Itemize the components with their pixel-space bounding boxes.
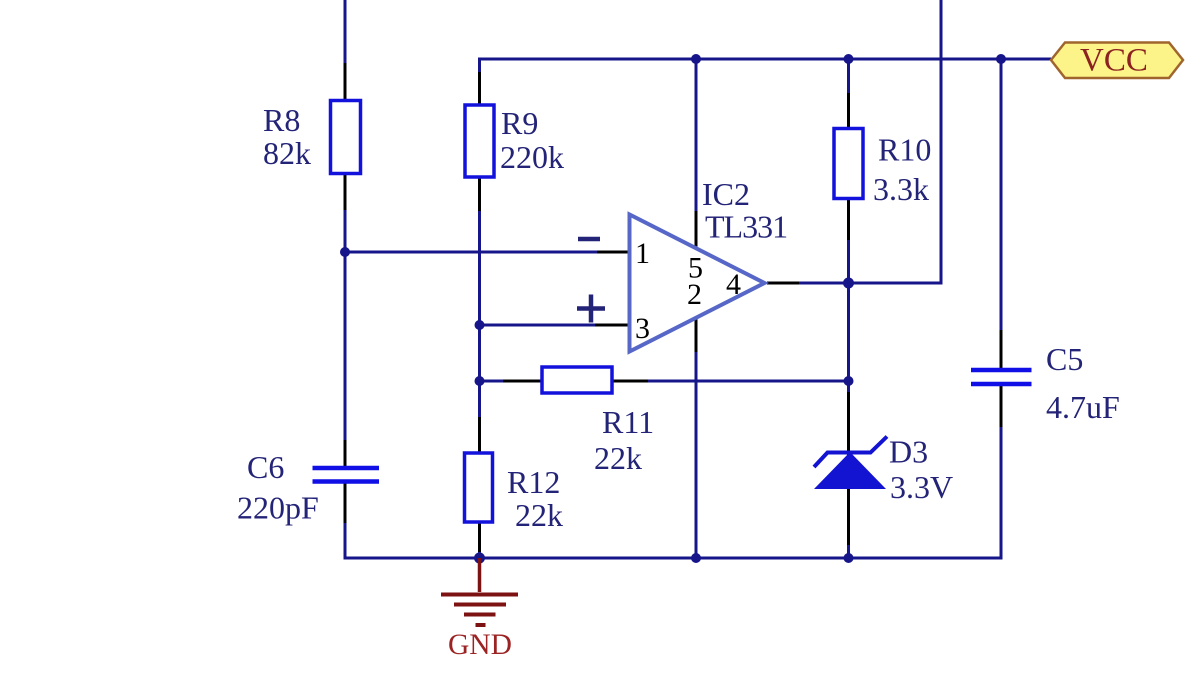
svg-text:D3: D3	[889, 434, 928, 470]
svg-text:R10: R10	[878, 132, 931, 168]
svg-text:220pF: 220pF	[237, 490, 319, 526]
svg-text:C6: C6	[247, 449, 284, 485]
svg-text:1: 1	[635, 237, 650, 270]
svg-text:22k: 22k	[515, 497, 563, 533]
svg-text:C5: C5	[1046, 341, 1083, 377]
svg-text:82k: 82k	[263, 135, 311, 171]
svg-text:4.7uF: 4.7uF	[1046, 389, 1120, 425]
svg-text:3.3V: 3.3V	[890, 469, 953, 505]
svg-text:TL331: TL331	[705, 209, 787, 245]
svg-text:22k: 22k	[594, 440, 642, 476]
svg-text:3.3k: 3.3k	[873, 171, 929, 207]
svg-text:VCC: VCC	[1080, 43, 1148, 79]
svg-text:220k: 220k	[500, 139, 564, 175]
svg-text:R9: R9	[501, 105, 538, 141]
svg-text:GND: GND	[448, 629, 512, 661]
svg-text:R8: R8	[263, 102, 300, 138]
svg-text:2: 2	[687, 278, 702, 311]
svg-text:R11: R11	[602, 404, 654, 440]
svg-text:R12: R12	[507, 464, 560, 500]
svg-text:4: 4	[726, 268, 741, 301]
svg-text:IC2: IC2	[702, 176, 750, 212]
svg-text:3: 3	[635, 312, 650, 345]
